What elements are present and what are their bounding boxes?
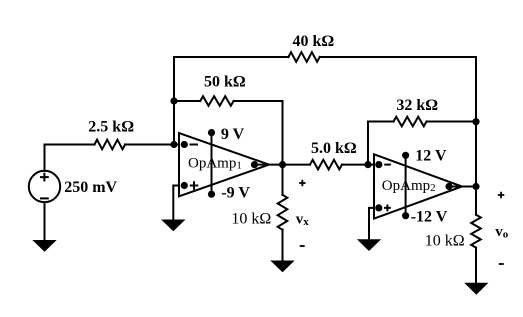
svg-text:5.0 kΩ: 5.0 kΩ: [311, 140, 357, 157]
wire: OpAmp1 noninverting input to ground: [173, 186, 184, 220]
label: vx minus sign: [300, 245, 305, 247]
svg-text:250 mV: 250 mV: [64, 179, 117, 196]
svg-text:50 kΩ: 50 kΩ: [204, 74, 246, 91]
op-amp U1 triangle: [179, 133, 269, 196]
pin dot: OpAmp2 noninverting input: [375, 204, 382, 211]
node: OpAmp2 inverting input junction: [364, 161, 371, 168]
resistor R 2.5k zigzag: [95, 140, 126, 150]
ground (vo): [464, 283, 488, 295]
node: 32k/40k junction: [472, 118, 479, 125]
label: vo minus sign: [499, 263, 504, 265]
wire: source top lead: [44, 145, 46, 171]
wire: source to 2.5k resistor: [45, 144, 95, 146]
wire: 50k branch left lead: [174, 100, 200, 102]
pin dot: OpAmp1 -9V supply: [208, 191, 215, 198]
wire: vo branch to ground: [475, 248, 477, 283]
wire: source bottom lead to ground: [44, 202, 46, 240]
node: vo output node: [472, 183, 479, 190]
wire: 32k right lead: [427, 121, 477, 123]
wire: OpAmp2 output to vo node: [449, 186, 476, 188]
pin dot: OpAmp1 +9V supply: [208, 129, 215, 136]
wire: OpAmp2 noninverting input to ground: [369, 208, 379, 239]
source + sign: [40, 173, 49, 182]
wire: vx branch down: [282, 165, 284, 195]
pin dot: OpAmp2 +12V supply: [402, 152, 409, 159]
wire: vo vertical 123 to 186.5: [475, 123, 477, 187]
ground (OpAmp1 + input): [161, 220, 185, 232]
svg-text:10 kΩ: 10 kΩ: [425, 233, 465, 250]
node: vx output node: [279, 161, 286, 168]
source - sign: [40, 197, 49, 199]
OpAmp2 minus input sign: [384, 164, 391, 166]
ground (OpAmp2 + input): [357, 239, 381, 251]
node: OpAmp1 inverting input junction: [170, 141, 177, 148]
wire: 5.0k to OpAmp2 inverting node: [342, 164, 379, 166]
wire: OpAmp1 supply line: [211, 133, 213, 195]
pin dot: OpAmp1 noninverting input: [181, 182, 188, 189]
wire: top feedback right segment: [320, 57, 476, 123]
OpAmp2 plus input sign: [384, 205, 391, 212]
label: vx plus sign: [299, 180, 306, 187]
voltage source V1 circle: [29, 171, 60, 202]
svg-text:OpAmp1: OpAmp1: [188, 156, 242, 172]
pin dot: OpAmp2 inverting input: [375, 161, 382, 168]
op-amp U2 triangle: [374, 154, 462, 218]
wire: 2.5k to OpAmp1 inverting input: [125, 144, 184, 146]
wire: vx branch to ground: [282, 230, 284, 261]
resistor R 10k (vo) zigzag: [471, 215, 481, 248]
ground (source): [32, 240, 56, 252]
svg-text:9 V: 9 V: [221, 126, 245, 143]
svg-text:vo: vo: [495, 224, 509, 241]
OpAmp1 plus input sign: [190, 181, 199, 190]
label: vo plus sign: [498, 192, 505, 199]
svg-text:32 kΩ: 32 kΩ: [396, 97, 438, 114]
resistor R 10k (vx) zigzag: [278, 195, 288, 230]
resistor R 5.0k zigzag: [310, 160, 342, 170]
wire: OpAmp1 output to vx node: [255, 164, 311, 166]
svg-text:OpAmp2: OpAmp2: [382, 178, 436, 194]
pin dot: OpAmp2 -12V supply: [402, 212, 409, 219]
svg-text:2.5 kΩ: 2.5 kΩ: [88, 119, 134, 136]
pin dot: OpAmp1 output: [251, 161, 258, 168]
wire: vo branch down: [475, 187, 477, 215]
node: 50k feedback junction: [170, 97, 177, 104]
wire: 50k branch right lead down to OpAmp1 output node: [234, 101, 283, 165]
resistor R 40k zigzag: [288, 52, 319, 62]
resistor R 50k zigzag: [200, 96, 233, 106]
resistor R 32k zigzag: [394, 117, 427, 127]
svg-text:10 kΩ: 10 kΩ: [231, 211, 271, 228]
svg-text:40 kΩ: 40 kΩ: [293, 33, 335, 50]
ground (vx): [270, 261, 294, 273]
OpAmp1 minus input sign: [190, 144, 199, 146]
svg-text:vx: vx: [296, 211, 310, 228]
wire: OpAmp2 supply line: [405, 155, 407, 215]
svg-text:12 V: 12 V: [415, 148, 447, 165]
svg-text:-12 V: -12 V: [411, 208, 448, 225]
pin dot: OpAmp1 inverting input: [181, 141, 188, 148]
pin dot: OpAmp2 output: [445, 183, 452, 190]
svg-text:-9 V: -9 V: [221, 185, 250, 202]
wire: top feedback left segment: [174, 57, 288, 145]
wire: 32k branch up from OpAmp2 input: [368, 122, 394, 165]
